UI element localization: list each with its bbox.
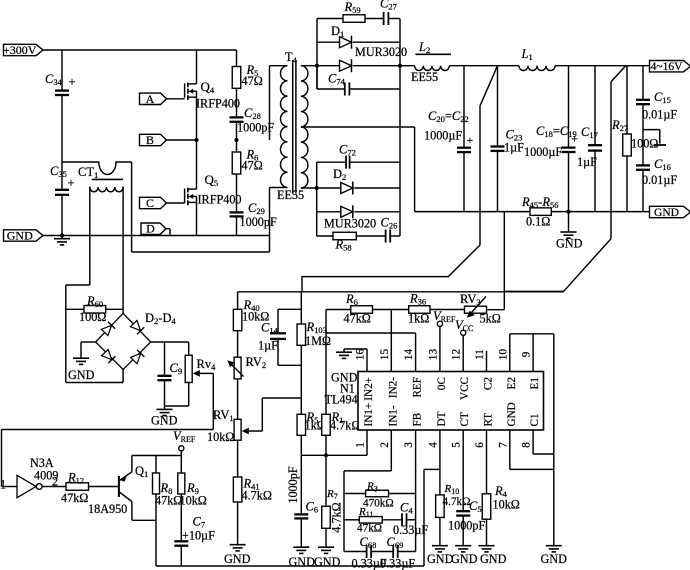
svg-text:+: + [467,133,474,147]
transformer T4 core [293,60,296,194]
wire GND rail [43,235,270,237]
svg-text:+: + [68,176,75,190]
label EE55 of T4 [277,188,304,202]
capacitor C7 [174,515,215,567]
capacitor C26 [381,216,401,243]
ground symbol at E rail [541,543,568,567]
ground symbol at R4 [479,543,507,567]
resistor R1 [322,410,361,455]
resistor R60 [66,294,123,324]
resistor R58 [317,232,386,252]
resistor R59 [317,0,383,22]
ground symbol at pin16 [336,349,352,358]
resistor R7 [322,455,344,544]
diode bridge lower-left [101,349,115,363]
resistor R103 [297,292,331,415]
junction dot secondary bottom/D2 [315,186,319,190]
ground symbol at R41 [224,542,251,567]
svg-text:+: + [571,132,578,146]
op-amp N3A 4009 inverter [0,456,58,498]
resistor R36 [408,292,430,326]
svg-text:GND: GND [506,402,518,426]
svg-text:1000pF: 1000pF [240,215,277,229]
diode bridge lower-right [130,350,144,364]
wire pin8 to E rail [533,430,554,454]
wire output sense drop [302,66,498,292]
label T4 [285,50,298,65]
ground symbol at bridge left [68,355,95,382]
svg-text:+300V: +300V [3,43,37,57]
transformer CT1 primary pass-through [62,162,132,175]
transistor Q1 18A950 [88,464,148,516]
svg-text:+: + [69,75,76,89]
wire output GND to RV3 [503,212,505,309]
svg-text:IN1-: IN1- [387,405,399,426]
svg-text:47kΩ: 47kΩ [344,312,371,326]
diode D2 upper [317,167,400,195]
capacitor C74 [317,66,400,96]
svg-text:100Ω: 100Ω [79,310,106,324]
ground symbol at output rail [556,212,583,251]
diode bridge upper-right [130,320,144,334]
svg-text:47kΩ: 47kΩ [61,491,88,505]
svg-text:1µF: 1µF [577,155,597,169]
transformer T4 primary winding [281,66,288,188]
svg-text:0.01µF: 0.01µF [642,108,677,122]
svg-text:1000pF: 1000pF [448,519,485,533]
wire RV1 wiper to R103 node [262,398,301,431]
wire D2 box left vertical [316,162,318,236]
svg-text:470kΩ: 470kΩ [363,498,394,510]
wire Q1 emitter to VREF rail [132,456,181,472]
junction dot Q4 source/node B [194,138,198,142]
svg-text:EE55: EE55 [277,188,304,202]
svg-text:7: 7 [497,442,509,448]
diode D1 lower [317,59,400,72]
svg-text:15: 15 [379,349,391,361]
svg-text:IRFP400: IRFP400 [196,97,240,111]
node B drive tag [140,133,197,147]
ground symbol at C6 [289,544,316,569]
diode bridge D2-D4 frame [96,313,151,369]
wire node B to T4 primary top [270,66,288,140]
wire C34-C35 column segments [61,50,63,236]
inductor L1 [519,47,555,71]
wire pin3 branch [415,430,417,552]
svg-text:5: 5 [451,442,463,448]
svg-text:GND: GND [151,414,178,428]
svg-text:GND: GND [289,555,316,569]
wire R36 to RV3 [430,309,465,311]
transformer CT1 secondary winding [90,187,123,192]
svg-text:IN2-: IN2- [387,377,399,398]
svg-text:100Ω: 100Ω [631,137,658,151]
wire pin15 to R36 row [390,310,392,372]
wire C15-C16 midnode [643,105,660,165]
svg-text:GND: GND [224,552,251,566]
resistor R10 [436,483,471,543]
svg-text:1: 1 [355,442,367,448]
wire Q4 source to node B [196,97,198,140]
wire pin14 REF [326,333,416,372]
inductor L2 [400,40,451,84]
resistor R41 [233,440,272,541]
wire inverter output [42,486,66,488]
diode bridge upper-left [101,322,115,336]
resistor R5 [232,50,263,88]
svg-text:0.33µF: 0.33µF [393,523,428,537]
capacitor C69 [371,535,416,570]
wire pin11 stub [486,351,488,372]
junction dot GND/C35 [60,233,64,237]
svg-text:1µF: 1µF [258,339,278,353]
wire center tap [301,127,415,212]
svg-text:12: 12 [451,349,463,360]
svg-text:IN2+: IN2+ [363,377,375,401]
node C drive tag [140,196,185,210]
node VCC terminal [455,318,473,372]
svg-text:IRFP400: IRFP400 [198,193,242,207]
resistor R5k [297,410,326,455]
svg-text:GND: GND [7,229,33,243]
ground symbol at C9 [151,406,178,427]
svg-text:CT: CT [459,412,471,426]
svg-text:10kΩ: 10kΩ [180,494,207,508]
svg-text:5kΩ: 5kΩ [480,312,501,326]
transformer T4 secondary winding [301,66,308,188]
node GND input tag [4,229,44,243]
node A drive tag [140,92,185,106]
resistor R6 [232,140,263,174]
wire D1 box left vertical [316,19,318,90]
capacitor C4 [382,501,428,538]
capacitor C23 [491,66,525,212]
capacitor C5 [448,430,485,543]
resistor R12 [61,471,89,506]
wire Q5 source to GND rail [196,202,198,235]
svg-text:A: A [146,92,155,106]
svg-text:13: 13 [427,349,439,361]
potentiometer RV4 [165,342,217,406]
svg-text:MUR3020: MUR3020 [355,45,407,59]
svg-text:C27: C27 [380,0,397,12]
capacitor C35 [50,164,75,195]
transistor Q4 IRFP400 [185,79,240,111]
wire E1 E2 tie [510,334,554,543]
svg-text:TL494: TL494 [325,393,358,407]
svg-text:1000µF: 1000µF [524,145,562,159]
svg-text:0.01µF: 0.01µF [642,173,677,187]
svg-text:10kΩ: 10kΩ [207,430,234,444]
svg-text:4: 4 [427,442,439,448]
svg-text:10kΩ: 10kΩ [493,498,520,512]
label CT1 [78,165,98,180]
wire R6 to R36 [373,309,409,311]
svg-text:E1: E1 [529,377,541,389]
wire R12 to Q1 base [89,486,119,488]
wire sense rail [238,291,564,293]
resistor R3 [344,481,416,510]
wire feedback sense from output [504,66,626,292]
capacitor C9 [158,342,183,406]
node VREF supply terminal [173,429,196,456]
wire +300V rail [43,49,237,51]
svg-text:GND: GND [427,552,454,566]
capacitor C27 [380,0,400,25]
svg-text:C1: C1 [529,413,541,426]
svg-text:1: 1 [0,478,6,492]
svg-text:14: 14 [403,349,415,361]
junction dot secondary top/D1 [315,64,319,68]
wire secondary bottom tap [301,187,317,189]
wire pin2 branch [344,430,391,552]
svg-text:47kΩ: 47kΩ [357,523,382,535]
wire T4 primary bottom return [132,188,288,253]
capacitor C72 [317,143,400,169]
svg-text:47Ω: 47Ω [242,159,263,173]
op-amp U1 TL494 body [358,372,544,431]
diode D2 lower [317,205,400,218]
svg-text:0C: 0C [436,377,448,390]
svg-text:GND: GND [480,552,507,566]
label D2-D4 [145,311,176,326]
diode D1 upper [317,24,400,49]
wire CT1 primary riser [131,162,133,252]
capacitor C15 [636,66,677,122]
capacitor C16 [636,157,677,212]
svg-text:4.7kΩ: 4.7kΩ [330,502,344,532]
potentiometer RV1 [207,379,262,444]
svg-text:0.1Ω: 0.1Ω [526,215,550,229]
svg-text:1kΩ: 1kΩ [408,312,429,326]
wire pin1 node [301,430,367,455]
junction dot output GND/C18 [566,210,570,214]
capacitor C28 [230,88,275,140]
svg-text:EE55: EE55 [411,70,438,84]
svg-text:DT: DT [436,411,448,426]
wire pin16 to ground [344,349,367,372]
wire pin4 to soft-start rail [156,430,440,566]
svg-text:0.33µF: 0.33µF [380,557,415,570]
wire Q1 collector [132,502,156,521]
resistor R9 [178,456,207,541]
node VREF terminal [433,309,456,372]
resistor R40 [233,292,269,331]
ground symbol at R7 [314,544,341,569]
transformer CT1 core bar [92,178,123,180]
wire output rail [449,65,650,67]
chassis ground stub [654,144,666,146]
resistor R27 [611,66,658,212]
label TL494 pin names [363,377,541,427]
capacitor C20-C22 [424,66,474,212]
svg-text:1µF: 1µF [504,141,524,155]
capacitor C14 [258,309,301,365]
svg-text:FB: FB [412,413,424,427]
wire R6 left drop to R1 [325,310,327,415]
svg-text:6: 6 [474,442,486,448]
svg-text:VCC: VCC [459,377,471,400]
wire Q4 drain [196,50,198,84]
potentiometer RV2 [227,331,266,379]
svg-text:11: 11 [474,349,486,360]
label TL494 pin numbers [355,349,533,448]
wire D1 box right vertical [399,19,401,237]
svg-text:4.7kΩ: 4.7kΩ [330,419,360,433]
resistor R6b [326,292,373,326]
svg-text:18A950: 18A950 [88,502,127,516]
svg-text:GND: GND [654,207,679,219]
svg-text:E2: E2 [506,377,518,389]
wire CT1 secondary right lead [122,187,124,314]
svg-text:GND: GND [451,552,478,566]
junction dot D1 output [398,64,402,68]
wire secondary top tap [301,65,317,67]
wire bridge right output [151,341,189,343]
junction dot R1/pin1 node [324,453,328,457]
wire bridge bottom lead [66,370,123,383]
svg-text:GND: GND [541,552,568,566]
svg-text:C: C [146,196,154,210]
junction dot C28/node B [234,138,238,142]
svg-text:3: 3 [403,442,415,448]
svg-text:+10µF: +10µF [182,529,215,543]
svg-text:16: 16 [355,349,367,361]
svg-text:MUR3020: MUR3020 [324,217,376,231]
svg-text:GND: GND [314,555,341,569]
svg-text:47Ω: 47Ω [242,74,263,88]
svg-text:10: 10 [497,349,509,361]
svg-text:1000µF: 1000µF [424,129,462,143]
wire pin7 to E rail [510,430,554,469]
resistor R45-R56 [521,195,558,229]
wire RV3 right to GND branch [487,309,505,310]
svg-text:4~16V: 4~16V [651,61,683,73]
transistor Q5 IRFP400 [185,172,242,207]
svg-text:B: B [146,133,154,147]
label MUR3020 of D2 [324,217,376,231]
svg-text:8: 8 [521,442,533,448]
svg-text:REF: REF [412,377,424,398]
ground symbol at C5 [451,543,478,567]
resistor R11 [344,506,382,535]
capacitor C6 [286,455,318,544]
capacitor C18-C19 [524,66,578,212]
svg-text:IN1+: IN1+ [363,403,375,427]
svg-text:4.7kΩ: 4.7kΩ [242,489,272,503]
svg-text:C2: C2 [483,377,495,390]
ground symbol at R10 [427,543,454,567]
ground symbol at input GND rail [54,236,70,245]
node 4~16V output tag [650,61,690,74]
svg-text:2: 2 [379,442,391,448]
label N1 TL494 [325,371,358,407]
svg-text:1MΩ: 1MΩ [305,334,331,348]
wire RV4 wiper to inverter input [2,373,214,486]
wire Q5 drain to node B [196,140,198,189]
node +300V input tag [3,43,43,57]
node GND output tag [650,206,690,219]
capacitor C17 [577,66,602,212]
resistor R8 [153,456,183,567]
svg-text:4.7kΩ: 4.7kΩ [443,496,471,508]
node D drive tag [141,222,170,236]
potentiometer RV3 [460,292,501,326]
capacitor C68 [344,535,387,570]
svg-text:RT: RT [483,413,495,427]
wire output GND rail [415,211,650,213]
wire CT1 secondary left lead [66,187,90,383]
resistor R4 [482,430,520,543]
svg-text:1000pF: 1000pF [286,466,300,503]
svg-text:GND: GND [68,368,95,382]
svg-text:GND: GND [556,237,583,251]
capacitor C34 [45,72,76,95]
svg-text:D: D [146,222,155,236]
capacitor C29 [230,174,277,236]
label MUR3020 of D1 [355,45,407,59]
svg-text:9: 9 [521,351,533,357]
wire bridge left to ground [81,342,96,355]
svg-text:47kΩ: 47kΩ [155,494,182,508]
